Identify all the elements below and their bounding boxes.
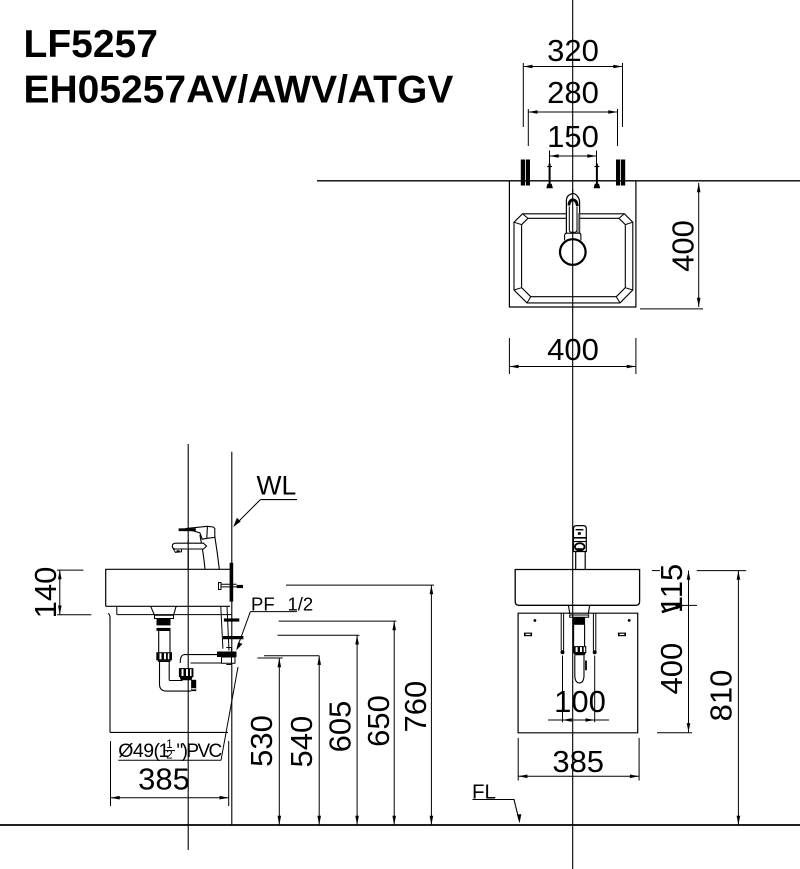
hinge dot left (534, 619, 537, 622)
dimension 320 (523, 63, 622, 127)
basin outer octagon rim (514, 214, 633, 303)
floor line FL (0, 824, 800, 826)
rim corner facet lines bottom-right (625, 288, 633, 290)
dimension 140 (57, 570, 91, 615)
faucet handle inner (top view) (569, 207, 577, 233)
basin underside funnel (151, 606, 176, 615)
wall anchor marks II left (523, 160, 528, 186)
WL leader arrow (235, 500, 261, 526)
FL underline and leader (473, 800, 520, 821)
dimension 100 (front view) (548, 656, 609, 723)
dimension 810 (737, 571, 741, 825)
drain locknut black (front view) (573, 617, 585, 625)
faucet side shading (top view) (577, 213, 579, 233)
svg-text:400: 400 (654, 643, 689, 695)
dimension 150 (550, 151, 597, 175)
drain flange band (155, 615, 174, 618)
dimension 760 (286, 585, 434, 825)
counter bottom line (106, 605, 230, 607)
faucet supply hose below counter (221, 607, 229, 651)
PF underline (250, 611, 297, 613)
rim corner facet lines bottom-left (514, 288, 522, 290)
faucet head band lines (574, 537, 587, 539)
faucet handle dark arc (top view) (569, 200, 578, 206)
sink counter (front view) (515, 570, 639, 606)
door handle right (618, 633, 626, 637)
faucet head (front view) (574, 526, 587, 552)
rim corner facet lines top-right (619, 214, 624, 219)
dimension 115/400 boundary arrow (662, 607, 678, 612)
faucet base (top view) (565, 233, 581, 240)
drain circle (top view) (560, 239, 586, 265)
svg-text:280: 280 (547, 75, 599, 110)
centerline overlay through faucet and drain (572, 189, 574, 266)
rim corner facet lines top-left (523, 214, 528, 219)
faucet spout arm (side view) (172, 543, 206, 549)
basin inner octagon rim (522, 218, 626, 296)
drain flange (front view) (570, 615, 589, 617)
drain pipe lower with U bottom (front view) (575, 655, 584, 683)
drain outlet stub black (front view) (585, 661, 587, 671)
faucet lever bar (side view) (179, 528, 196, 531)
tailpipe (side view) (159, 631, 170, 652)
basin underside bulge (front view) (569, 606, 590, 614)
drain locknut black (157, 619, 171, 626)
svg-text:115: 115 (654, 564, 689, 613)
sink outer rim rectangle (top view) (509, 181, 636, 307)
svg-text:385: 385 (138, 762, 190, 797)
supply stub lower (605 level) (223, 636, 243, 639)
faucet hole pin left (546, 164, 553, 189)
svg-text:100: 100 (554, 684, 606, 719)
faucet body (side view) (200, 535, 219, 569)
svg-text:LF5257: LF5257 (24, 23, 158, 66)
faucet head top dash (576, 529, 584, 531)
wall line vertical (side view) (231, 452, 233, 825)
drain locknut lower band (157, 628, 171, 631)
centerline vertical through top and front views (572, 0, 574, 869)
faucet handle (side view) (186, 526, 215, 539)
faucet axis overlay through spout (187, 540, 189, 570)
svg-text:EH05257AV/AWV/ATGV: EH05257AV/AWV/ATGV (24, 69, 454, 112)
svg-text:385: 385 (552, 744, 604, 779)
dimension 385 (front view) (518, 738, 639, 781)
PVC leader line (221, 667, 238, 760)
faucet body (top view) (566, 193, 579, 240)
dimension 605 (278, 635, 360, 825)
drain pipe upper (front view) (574, 625, 585, 646)
faucet axis centerline (side view) (187, 444, 189, 850)
faucet aerator oval (front view) (575, 543, 585, 550)
hinge dot right (628, 619, 631, 622)
svg-text:")PVC: ")PVC (177, 741, 222, 762)
WL underline (260, 499, 297, 501)
drain trap nut (front view) (573, 646, 586, 653)
svg-text:320: 320 (547, 33, 599, 68)
cabinet (front view) (518, 613, 638, 733)
svg-text:400: 400 (547, 332, 599, 367)
PVC drain stub black (191, 680, 196, 691)
svg-text:150: 150 (547, 119, 599, 154)
counter top (side view) (106, 569, 232, 606)
wall thick bar behind sink (230, 563, 234, 602)
trap outlet horizontal pipe to wall (184, 655, 227, 663)
svg-text:WL: WL (257, 471, 297, 501)
dimension 385 (side view) (111, 741, 229, 806)
dimension 400 bottom (top view) (509, 338, 636, 374)
faucet hole pin right (594, 164, 601, 189)
supply tee at wall PF (219, 583, 222, 590)
dimension 115/400 extension lines right (652, 571, 746, 733)
trap elbow (160, 684, 192, 691)
svg-text:Ø49(: Ø49( (118, 740, 160, 762)
cabinet left edge (side view) (108, 613, 110, 732)
faucet head dot (578, 532, 581, 535)
dimension 280 (528, 109, 617, 146)
dimension 530 (257, 658, 282, 825)
svg-text:540: 540 (284, 716, 319, 768)
trap nut 2 (179, 668, 194, 677)
svg-text:810: 810 (704, 670, 739, 722)
faucet spout tip (side view) (173, 549, 181, 552)
drain spec underline (118, 759, 221, 761)
supply stub upper (650 level) (224, 618, 239, 621)
wall anchor marks II right (618, 160, 623, 186)
PF leader arrow (237, 612, 250, 648)
svg-text:2: 2 (166, 750, 172, 762)
svg-text:530: 530 (244, 715, 279, 767)
sink apron lip (117, 606, 232, 614)
cabinet bottom (side view) (110, 731, 228, 733)
angle valve cluster at wall (217, 652, 237, 658)
faucet column (front view) (576, 552, 586, 570)
svg-text:140: 140 (28, 567, 63, 619)
faucet handle front face line (206, 526, 209, 538)
svg-text:650: 650 (361, 695, 396, 747)
svg-text:400: 400 (665, 220, 700, 272)
dimension 540 (264, 656, 321, 825)
dimension 400 right side (top view) (640, 183, 703, 309)
svg-text:760: 760 (398, 681, 433, 733)
wall line horizontal (top view) (317, 180, 800, 182)
svg-text:605: 605 (323, 701, 358, 753)
dimension 650 (279, 621, 397, 825)
door handle left (524, 633, 532, 637)
supply hose left (front view) (561, 614, 563, 651)
trap pipe below nut (160, 662, 170, 684)
trap nut 1 (156, 652, 172, 660)
supply hose right (front view) (593, 614, 595, 651)
